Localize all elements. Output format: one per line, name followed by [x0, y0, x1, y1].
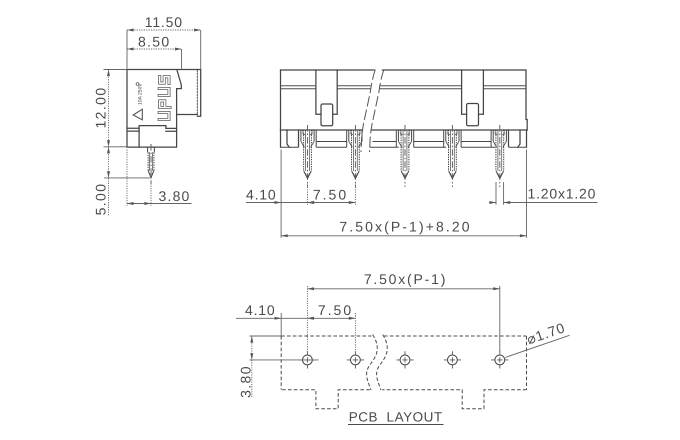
- ext body left up: [280, 313, 282, 336]
- leader diameter 1.70: [505, 335, 569, 357]
- dim line total width: [281, 235, 526, 237]
- arrows 4.10 pcb (outside): [275, 317, 282, 320]
- right end pocket: [509, 130, 521, 147]
- dim 11.50 extension lines: [127, 30, 201, 69]
- arrows total width: [281, 234, 288, 237]
- front body bottom edge: [281, 129, 528, 131]
- front body left edge: [280, 70, 282, 130]
- dim 12.00 line: [108, 70, 110, 147]
- side view pin: [148, 147, 155, 178]
- ext hole1 up: [306, 286, 308, 352]
- side view right step lines: [166, 128, 177, 131]
- svg-text:3.80: 3.80: [159, 188, 191, 204]
- dim 3.80 line: [127, 203, 192, 205]
- dim 11.50 line: [127, 29, 201, 31]
- dim line 4.10 / 7.50: [246, 202, 355, 204]
- dim line 1.20x1.20: [489, 202, 597, 204]
- ext hole5 up: [499, 286, 501, 352]
- svg-text:7.50x(P-1)+8.20: 7.50x(P-1)+8.20: [339, 219, 471, 235]
- svg-text:7.50: 7.50: [318, 302, 353, 318]
- right latch: [467, 104, 479, 126]
- pin 4: [446, 125, 459, 187]
- side view top-right flange: [177, 70, 201, 117]
- SUPU logo: [159, 77, 170, 120]
- pin 5: [493, 125, 506, 187]
- arrows 3.80 pcb: [250, 336, 253, 343]
- front body top edge: [281, 69, 526, 71]
- side view body outline: [127, 70, 201, 148]
- svg-text:3.80: 3.80: [238, 365, 254, 398]
- 3.80 top extension: [250, 335, 282, 337]
- dim 5.00 line: [108, 147, 110, 216]
- pocket 3-4: [414, 130, 444, 147]
- molded dot mark: [136, 83, 139, 86]
- dim line 7.50x(P-1): [307, 288, 499, 290]
- arrows 7.50 pcb: [307, 317, 314, 320]
- pin 2: [349, 125, 362, 187]
- dim 8.50 extension line: [181, 49, 183, 69]
- svg-text:12.00: 12.00: [93, 86, 109, 128]
- dim 12.00 extension lines: [104, 70, 128, 147]
- side view support block: [139, 126, 166, 148]
- bottom strip right wall: [526, 130, 528, 147]
- dim 3.80 arrows: [127, 202, 134, 205]
- hole crosses: [299, 351, 509, 368]
- left tab: [316, 70, 337, 114]
- svg-text:7.50x(P-1): 7.50x(P-1): [364, 271, 447, 287]
- pcb break lines: [367, 335, 388, 390]
- front inner line 2: [281, 88, 526, 90]
- dim line 3.80 pcb: [251, 336, 253, 398]
- dim 11.50 arrows: [127, 29, 134, 32]
- svg-text:4.10: 4.10: [246, 187, 276, 203]
- left latch: [321, 104, 333, 126]
- pcb holes: [303, 355, 505, 365]
- svg-text:PCB LAYOUT: PCB LAYOUT: [349, 410, 443, 425]
- arrows 4.10 (outside): [275, 201, 282, 204]
- dim 3.80 extension lines: [127, 150, 151, 206]
- dim 5.00 arrows: [107, 147, 110, 154]
- bottom strip bottom edge: [281, 146, 527, 148]
- pocket 2-3 (cut by break): [373, 130, 397, 147]
- pocket 4-5: [461, 130, 491, 147]
- front body right edge: [526, 70, 527, 130]
- arrows 7.50x(P-1): [307, 287, 314, 290]
- hole1 left extension: [250, 359, 319, 361]
- break lines front view: [361, 70, 384, 153]
- bottom strip left wall: [280, 130, 282, 147]
- dim 8.50 line: [127, 48, 182, 50]
- left end pocket: [287, 130, 299, 147]
- side view pin centerline: [150, 144, 152, 185]
- title underline: [348, 424, 444, 426]
- pocket 1-2: [316, 130, 347, 147]
- ext body left edge down: [280, 150, 282, 238]
- side view chamfer diagonal: [177, 70, 182, 89]
- right tab: [462, 70, 484, 114]
- ext body right edge down: [526, 150, 528, 238]
- ext pin2 center: [354, 182, 356, 205]
- dim 8.50 arrows: [127, 48, 134, 51]
- dim 5.00 pin-tip extension: [104, 177, 150, 179]
- pcb outline dashed: [281, 336, 526, 409]
- dim line 4.10/7.50 pcb: [236, 317, 355, 319]
- svg-text:4.10: 4.10: [245, 302, 275, 318]
- arrows 7.50: [308, 201, 315, 204]
- ext hole2 up: [354, 313, 356, 352]
- front inner line 1: [281, 85, 526, 87]
- ext pin5 edges: [496, 182, 504, 205]
- side view flange hidden edge: [196, 70, 198, 114]
- svg-text:1.20x1.20: 1.20x1.20: [528, 186, 597, 202]
- svg-text:7.50: 7.50: [313, 187, 348, 203]
- pockets between pins: [281, 130, 527, 147]
- svg-text:8.50: 8.50: [138, 33, 170, 49]
- svg-text:5.00: 5.00: [93, 183, 109, 216]
- pin 1: [301, 125, 314, 187]
- ext pin1 center: [307, 182, 309, 205]
- arrows 1.20x1.20 (outside): [489, 201, 496, 204]
- svg-text:11.50: 11.50: [145, 14, 183, 30]
- pin 3: [398, 125, 411, 187]
- certification triangle: [133, 109, 142, 120]
- svg-text:10A 250V: 10A 250V: [138, 83, 144, 105]
- dim 12.00 arrows: [107, 70, 110, 77]
- side view left step lines: [127, 128, 139, 131]
